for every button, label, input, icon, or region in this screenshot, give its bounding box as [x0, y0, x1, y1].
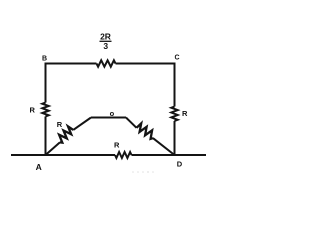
resistor 2R/3 (top): [97, 60, 116, 66]
wire left vertical upper (B down to resistor): [45, 63, 47, 103]
svg-text:C: C: [175, 55, 180, 62]
wire right vertical upper (C down to resistor): [174, 63, 176, 107]
wire right vertical lower (resistor down to D): [174, 121, 176, 155]
faint dotted mark: [132, 171, 154, 173]
resistor R (bottom): [115, 152, 132, 158]
svg-text:B: B: [42, 55, 47, 62]
resistor R (left diagonal): [59, 126, 73, 142]
wire diagonal lead from plateau: [126, 118, 137, 128]
svg-text:D: D: [177, 160, 183, 169]
wire top-right segment resistor to C: [116, 63, 175, 65]
resistor R (right side): [171, 107, 177, 122]
wire diagonal lead from A: [46, 142, 61, 155]
svg-text:R: R: [114, 141, 120, 150]
svg-text:R: R: [57, 120, 63, 129]
wire bottom rail left (to A and resistor): [11, 154, 115, 156]
wire left vertical lower (resistor down to A): [45, 117, 47, 156]
svg-text:A: A: [36, 162, 42, 172]
wire plateau at node o: [91, 117, 126, 119]
svg-text:R: R: [182, 109, 188, 118]
fraction bar: [100, 40, 112, 42]
wire bottom rail right (resistor through D to end): [132, 154, 207, 156]
resistor R (left side): [42, 103, 48, 117]
wire diagonal lead to node o plateau: [73, 118, 91, 130]
wire top-left segment B to resistor: [46, 63, 97, 65]
wire diagonal lead to D: [153, 138, 175, 155]
svg-text:3: 3: [103, 41, 108, 51]
svg-text:o: o: [110, 109, 115, 118]
svg-text:R: R: [30, 106, 36, 115]
resistor (right diagonal, unlabeled): [137, 123, 153, 138]
